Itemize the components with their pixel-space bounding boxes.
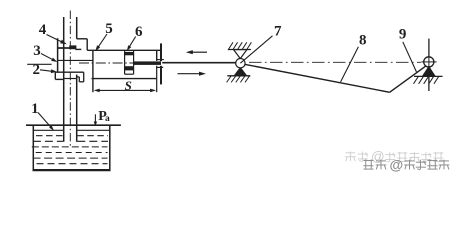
valve body mid line xyxy=(58,59,93,61)
leader 6 xyxy=(127,37,136,51)
valve body lower right flange xyxy=(77,72,84,82)
link rod xyxy=(162,62,236,64)
label 8 xyxy=(359,33,367,49)
Pa pressure arrow xyxy=(94,114,97,126)
svg-text:6: 6 xyxy=(135,24,143,40)
leader 2 xyxy=(40,69,57,73)
cylinder centerline xyxy=(79,62,162,64)
svg-text:4: 4 xyxy=(39,22,47,38)
tank left wall xyxy=(32,126,34,171)
svg-text:8: 8 xyxy=(359,33,367,49)
label 5 xyxy=(105,21,113,37)
valve body left shoulder xyxy=(58,47,70,49)
right motion arrow xyxy=(178,72,207,76)
leader 9 xyxy=(403,42,417,72)
water surface line xyxy=(34,129,109,131)
pivot 9 rod xyxy=(428,39,430,91)
valve body inner ledge xyxy=(75,48,81,50)
valve body left edge xyxy=(57,38,59,72)
rod end upper bar xyxy=(160,43,162,61)
svg-text:a: a xyxy=(105,114,110,124)
lever left arm xyxy=(245,64,390,92)
pipe left wall xyxy=(63,17,65,142)
rod gland bottom xyxy=(156,66,163,68)
leader 7 xyxy=(240,36,272,63)
lever centerline xyxy=(249,61,421,63)
pivot 7 bottom plate xyxy=(227,76,251,83)
cylinder top xyxy=(87,49,160,51)
leader 5 xyxy=(95,34,107,51)
pivot 7 upper triangle xyxy=(234,50,247,59)
cylinder bottom xyxy=(92,78,157,80)
leader 1 xyxy=(38,113,54,131)
pivot 9 triangle xyxy=(423,67,435,76)
water hatching xyxy=(32,136,108,164)
leader 4 xyxy=(47,35,67,45)
rod gland top xyxy=(157,59,164,61)
pivot 9 pin axis xyxy=(421,57,436,68)
pipe joint line xyxy=(64,78,77,80)
watermark toutiao xyxy=(363,157,449,173)
dimension line S xyxy=(94,89,156,93)
svg-text:@: @ xyxy=(371,149,385,164)
leader 3 xyxy=(41,54,57,63)
pipe right wall upper xyxy=(76,17,78,39)
piston walls xyxy=(125,51,134,74)
label S xyxy=(125,78,132,93)
svg-text:9: 9 xyxy=(399,26,407,42)
tank lid board xyxy=(26,124,121,126)
svg-text:3: 3 xyxy=(33,43,41,59)
watermark zhihu xyxy=(345,149,443,164)
svg-text:7: 7 xyxy=(274,24,282,40)
label 4 xyxy=(39,22,47,38)
spool land xyxy=(69,45,76,49)
label 9 xyxy=(399,26,407,42)
pipe right wall lower xyxy=(76,75,78,142)
reference line xyxy=(27,63,51,65)
lever right arm xyxy=(390,65,427,92)
tank bottom xyxy=(33,169,111,171)
cylinder right wall xyxy=(156,50,158,92)
pivot 7 pin circle xyxy=(236,59,245,68)
Pa label xyxy=(98,109,110,124)
cylinder left wall xyxy=(92,50,94,92)
tank right wall xyxy=(109,126,111,171)
valve body lower left flange xyxy=(55,72,83,79)
left motion arrow xyxy=(186,50,207,54)
pivot 9 pin circle xyxy=(424,57,434,67)
label 6 xyxy=(135,24,143,40)
rod end lower bar xyxy=(160,66,162,85)
svg-text:@: @ xyxy=(390,157,404,173)
pivot 7 top plate xyxy=(228,42,252,49)
leader 8 xyxy=(341,47,359,82)
label 7 xyxy=(274,24,282,40)
label 3 xyxy=(33,43,41,59)
svg-text:1: 1 xyxy=(31,101,39,117)
label 2 xyxy=(32,62,40,78)
piston upper seal xyxy=(125,52,134,55)
label 1 xyxy=(31,101,39,117)
piston rod xyxy=(134,61,161,65)
valve body top right shoulder xyxy=(77,39,88,51)
pipe interior mask xyxy=(65,128,76,142)
piston lower seal xyxy=(125,66,134,70)
svg-text:S: S xyxy=(125,78,132,93)
pipe centerline xyxy=(69,11,71,147)
pivot 7 lower triangle xyxy=(234,68,246,76)
pivot 9 ground xyxy=(414,76,443,83)
